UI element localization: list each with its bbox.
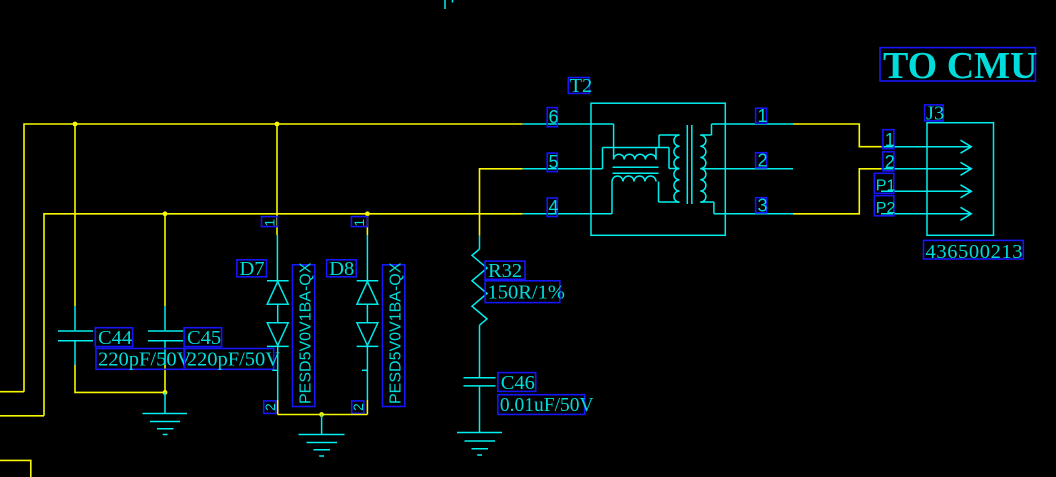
svg-text:5: 5 [549, 152, 559, 172]
wire diode gnd bus [278, 414, 368, 416]
stub wire top-right [452, 0, 454, 3]
T2 coil lower right link [659, 182, 680, 203]
label D7 part PESD5V0V1BA-QX [293, 262, 315, 406]
svg-text:PESD5V0V1BA-QX: PESD5V0V1BA-QX [298, 262, 315, 404]
stub wire top-left [444, 0, 446, 9]
T2 right winding [700, 135, 706, 202]
ground GND2 [299, 415, 345, 457]
svg-text:C44: C44 [98, 327, 132, 349]
ground GND3 [457, 433, 502, 456]
resistor R32 [472, 236, 487, 378]
pin label 2 of D8 [350, 401, 366, 414]
wire T2 pin3 to J3 pin2 [793, 169, 881, 214]
pin label 2 of D7 [262, 401, 278, 414]
T2 coil upper right hook [655, 148, 657, 160]
pin label 1 of D7 [261, 217, 277, 227]
pin label 1 of D8 [351, 217, 367, 227]
node diode gnd [319, 412, 324, 417]
label J3 part 436500213 [924, 240, 1024, 263]
wire C44 drop [74, 124, 76, 306]
svg-text:3: 3 [758, 196, 768, 216]
diode D7 (dual TVS) [267, 235, 289, 400]
wire D8 bottom [366, 400, 368, 415]
svg-text:R32: R32 [488, 260, 522, 282]
svg-text:C45: C45 [187, 327, 221, 349]
T2 core lines [687, 125, 692, 204]
pin label 1 (T2) [756, 106, 768, 126]
T2 pin 6 [523, 124, 614, 160]
T2 choke core lines [613, 167, 659, 173]
T2 primary coil lower [612, 176, 656, 182]
svg-text:2: 2 [885, 152, 895, 172]
T2 pin 5 [523, 148, 680, 169]
svg-text:4: 4 [549, 197, 559, 217]
svg-text:D7: D7 [240, 258, 265, 280]
svg-text:1: 1 [758, 106, 768, 126]
svg-text:J3: J3 [926, 103, 944, 125]
pin label 6 [547, 107, 558, 127]
pin label 4 [547, 197, 558, 217]
pin label 2 (J3) [883, 152, 895, 172]
T2 left winding [674, 135, 680, 202]
label TO CMU [880, 45, 1037, 87]
pin label 3 (T2) [756, 196, 768, 216]
svg-text:436500213: 436500213 [926, 241, 1024, 263]
svg-text:2: 2 [262, 403, 278, 411]
label C46 value 0.01uF/50V [498, 395, 594, 416]
svg-text:C46: C46 [501, 372, 535, 394]
svg-text:P2: P2 [876, 200, 896, 217]
svg-text:1: 1 [885, 130, 895, 150]
J3 pin 2 [881, 162, 971, 175]
label C46 [498, 372, 536, 394]
J3 pin P2 [881, 207, 971, 220]
label D8 part PESD5V0V1BA-QX [383, 262, 405, 406]
ground GND1 [143, 392, 188, 434]
pin label P1 (J3) [874, 173, 895, 194]
label C45 value 220pF/50V [185, 349, 281, 371]
label C44 [95, 327, 132, 349]
svg-text:220pF/50V: 220pF/50V [98, 349, 192, 371]
label D7 [237, 258, 267, 280]
wire T2 pin1 to J3 pin1 [793, 124, 881, 147]
label D8 [327, 258, 357, 280]
pin label 1 (J3) [883, 130, 895, 150]
node net B / D8 [365, 211, 370, 216]
label R32 value 150R/1% [485, 281, 565, 304]
svg-text:PESD5V0V1BA-QX: PESD5V0V1BA-QX [388, 262, 405, 404]
wire net A horizontal [24, 124, 523, 392]
svg-text:150R/1%: 150R/1% [488, 281, 565, 303]
svg-text:1: 1 [351, 219, 367, 227]
wire D8 drop [366, 214, 368, 235]
label T2 [568, 75, 592, 97]
diode D8 (dual TVS) [357, 235, 379, 400]
T2 pin 3 [700, 202, 793, 214]
T2 winding top link [659, 135, 680, 148]
svg-text:2: 2 [758, 151, 768, 171]
capacitor C45 [148, 306, 183, 365]
node net B / C45 [163, 211, 168, 216]
wire D7 bottom [277, 400, 279, 415]
wire R32 feed from T2 pin5 [480, 169, 523, 236]
label C44 value 220pF/50V [96, 349, 192, 371]
pin label P2 (J3) [874, 196, 895, 217]
svg-text:T2: T2 [570, 75, 593, 97]
label C45 [184, 327, 222, 349]
label R32 [485, 260, 525, 282]
T2 primary coil upper [614, 154, 656, 159]
pin label 5 [547, 152, 558, 172]
T2 pin 4 [523, 182, 612, 214]
wire net B horizontal [44, 214, 523, 416]
svg-text:6: 6 [549, 107, 559, 127]
svg-text:220pF/50V: 220pF/50V [187, 349, 281, 371]
pin label 2 (T2) [756, 151, 768, 171]
wire net B left tail [0, 415, 44, 417]
wire C44 bottom to gnd node [75, 365, 165, 392]
svg-text:2: 2 [350, 403, 366, 411]
wire bottom-left corner [0, 460, 31, 477]
connector J3 body [927, 123, 994, 236]
node net A / D7 [275, 122, 280, 127]
wire C45 bottom [164, 365, 166, 392]
label J3 [925, 103, 945, 125]
capacitor C44 [58, 306, 93, 365]
svg-text:TO CMU: TO CMU [883, 45, 1037, 87]
J3 pin 1 [881, 140, 971, 153]
svg-text:P1: P1 [876, 178, 896, 195]
wire net A left tail [0, 391, 24, 393]
T2 pin 1 [700, 124, 793, 135]
J3 pin P1 [881, 185, 971, 198]
T2 pin 2 [700, 168, 793, 170]
node C44/C45/gnd [163, 390, 168, 395]
svg-text:D8: D8 [329, 258, 354, 280]
capacitor C46 [464, 378, 496, 432]
wire C45 drop [164, 214, 166, 306]
wire D7 drop [276, 124, 278, 235]
svg-text:1: 1 [261, 219, 277, 227]
node net A / C44 [73, 122, 78, 127]
svg-text:0.01uF/50V: 0.01uF/50V [500, 395, 594, 416]
transformer T2 body [591, 103, 725, 235]
